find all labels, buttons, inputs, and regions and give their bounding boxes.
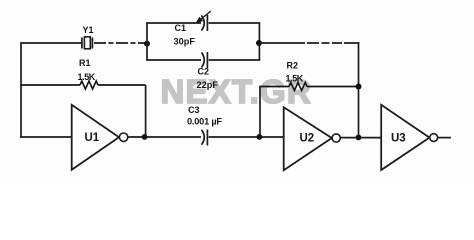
svg-text:22pF: 22pF: [197, 80, 219, 90]
resistor R2 (1.5K): [260, 83, 358, 91]
svg-text:1.5K: 1.5K: [286, 74, 304, 84]
node dot U2 input / R2 junction: [257, 134, 263, 140]
wire bottom branch right (C2 to box right): [209, 59, 261, 61]
wire R1 right vertical (down to U1 output): [145, 85, 147, 137]
svg-text:Y1: Y1: [83, 25, 94, 35]
node dot U1 output / R1 junction: [142, 134, 148, 140]
capacitor C1 (variable, 30pF): [195, 11, 211, 31]
wire Y1 to node A (dashed scan look): [94, 42, 147, 44]
node C junction dot (R2 right): [356, 84, 362, 90]
svg-text:C2: C2: [198, 67, 210, 77]
node B junction dot: [256, 40, 262, 46]
svg-text:R1: R1: [79, 58, 91, 68]
svg-text:U2: U2: [300, 133, 315, 145]
node dot U2 output / feedback junction: [356, 135, 362, 141]
capacitor C3 (0.001 uF): [202, 130, 208, 146]
svg-text:U3: U3: [391, 133, 406, 145]
wire top branch left (to C1): [146, 22, 201, 24]
svg-text:0.001 µF: 0.001 µF: [187, 116, 222, 126]
wire bottom branch left (to C2): [146, 59, 201, 61]
capacitor C2 (22pF): [202, 52, 208, 68]
wire top branch right (C1 to box right): [209, 22, 261, 24]
svg-text:U1: U1: [85, 132, 100, 144]
inverter U2: [284, 107, 341, 170]
wire right vertical (corner down to U2 output node): [358, 42, 360, 137]
wire U1 output to C3: [128, 136, 201, 138]
inverter U3: [381, 105, 437, 170]
wire C1/C2 box right vertical: [258, 23, 260, 60]
wire U1 input: [20, 136, 71, 138]
node A junction dot: [144, 41, 150, 47]
wire left rail vertical: [20, 42, 22, 138]
wire U3 output: [438, 137, 451, 139]
svg-text:C1: C1: [175, 23, 187, 33]
crystal Y1: [82, 37, 93, 49]
wire node B to right corner: [259, 42, 359, 44]
svg-text:C3: C3: [188, 105, 200, 115]
svg-text:1.5K: 1.5K: [78, 72, 96, 82]
inverter U1: [72, 105, 128, 170]
wire C1/C2 box left vertical: [146, 23, 148, 60]
wire C3 to U2 input: [209, 136, 284, 138]
resistor R1 (1.5K): [21, 81, 146, 89]
wire U2 output: [340, 137, 381, 139]
wire R2 left vertical (down to U2 input): [259, 86, 261, 137]
svg-text:30pF: 30pF: [174, 37, 196, 47]
svg-text:R2: R2: [287, 61, 299, 71]
wire top-left horizontal (left rail to Y1): [21, 42, 82, 44]
